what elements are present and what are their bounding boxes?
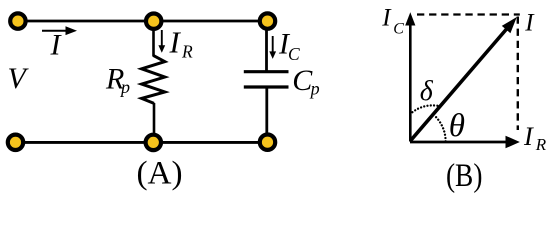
- wire top bus: [18, 20, 267, 23]
- dashed line right: [517, 17, 519, 131]
- svg-text:θ: θ: [449, 108, 465, 144]
- resistor Rp: [142, 56, 165, 104]
- wire bottom bus: [16, 141, 268, 144]
- axis IR (horizontal): [410, 136, 520, 149]
- label IC (axis): [381, 5, 404, 38]
- svg-text:I: I: [169, 25, 182, 60]
- arrow IR: [158, 30, 165, 53]
- arrow IC: [269, 36, 276, 59]
- svg-text:(B): (B): [446, 157, 483, 194]
- svg-text:(A): (A): [136, 154, 182, 191]
- svg-text:p: p: [119, 77, 130, 97]
- label Cp: [292, 64, 319, 98]
- arrow I (top current): [42, 26, 77, 35]
- arc delta: [412, 105, 438, 112]
- wire middle branch top: [152, 21, 155, 57]
- svg-text:δ: δ: [420, 76, 434, 107]
- dashed line top: [417, 13, 520, 15]
- label IR: [169, 25, 194, 62]
- node top-middle: [146, 14, 161, 29]
- capacitor Cp top plate: [244, 70, 289, 73]
- wire right branch top: [265, 21, 268, 71]
- svg-text:R: R: [181, 42, 193, 62]
- svg-text:C: C: [288, 44, 300, 64]
- vector I: [410, 17, 516, 141]
- svg-text:I: I: [523, 121, 534, 151]
- node bottom-right: [260, 135, 275, 150]
- label IR (axis): [523, 121, 547, 154]
- node top-right: [260, 13, 275, 28]
- wire right branch bottom: [265, 88, 268, 143]
- label Rp: [105, 62, 130, 97]
- node bottom-left: [8, 135, 23, 150]
- node top-left: [10, 13, 25, 28]
- node bottom-middle: [146, 135, 161, 150]
- svg-text:R: R: [535, 135, 547, 154]
- capacitor Cp bottom plate: [244, 85, 289, 88]
- arc theta: [436, 117, 446, 141]
- wire middle branch bottom: [153, 103, 156, 142]
- svg-text:C: C: [393, 21, 404, 38]
- label IC: [278, 28, 300, 64]
- svg-text:p: p: [309, 78, 320, 98]
- axis IC (vertical): [405, 12, 415, 141]
